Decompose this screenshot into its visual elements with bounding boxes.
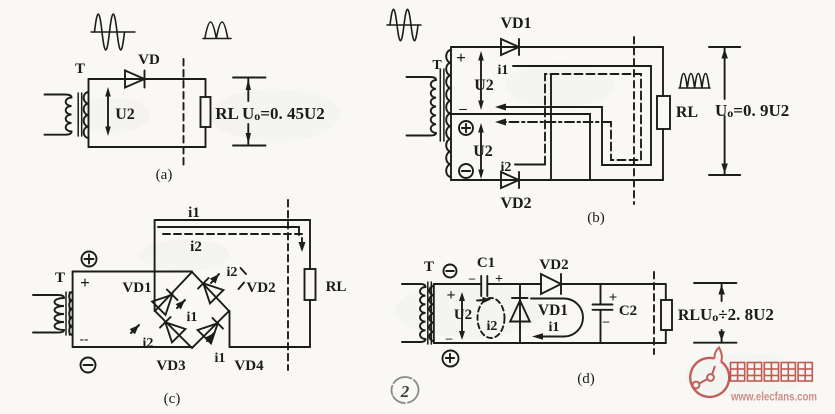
diode VD2 (b) bbox=[501, 172, 519, 188]
svg-text:(c): (c) bbox=[164, 391, 181, 407]
diode VD2 (d) bbox=[541, 274, 561, 294]
svg-text:VD2: VD2 bbox=[500, 195, 531, 212]
svg-text:--: -- bbox=[80, 331, 89, 346]
wire right rail (c) bbox=[309, 220, 311, 269]
svg-text:U2: U2 bbox=[115, 106, 135, 123]
svg-text:+: + bbox=[80, 273, 90, 292]
i1 inner rail (c) bbox=[158, 227, 299, 235]
svg-text:i2: i2 bbox=[143, 336, 154, 351]
node minus circle (d) bbox=[444, 265, 457, 278]
i1 solid loop (d) bbox=[531, 299, 583, 340]
dashed separator (a) bbox=[183, 59, 185, 166]
svg-text:U2: U2 bbox=[473, 143, 493, 160]
svg-text:VD2: VD2 bbox=[539, 257, 568, 273]
svg-text:C1: C1 bbox=[477, 255, 495, 271]
svg-text:U2: U2 bbox=[454, 307, 472, 323]
svg-text:+: + bbox=[609, 290, 618, 306]
svg-text:U2: U2 bbox=[474, 77, 494, 94]
input sine waveform (a) bbox=[91, 14, 135, 50]
svg-text:VD1: VD1 bbox=[500, 15, 531, 32]
wire top (d) bbox=[434, 283, 481, 285]
svg-text:i2: i2 bbox=[227, 265, 238, 280]
dashed separator (c) bbox=[287, 200, 289, 370]
svg-text:VD: VD bbox=[138, 52, 160, 68]
wire top (a) bbox=[89, 78, 206, 80]
wire vertical to i1 rail (c) bbox=[154, 220, 156, 311]
dimension Uo (d) bbox=[694, 283, 736, 343]
svg-text:i1: i1 bbox=[188, 205, 200, 221]
transformer T (b) bbox=[407, 47, 452, 180]
svg-text:RL: RL bbox=[326, 279, 347, 295]
i2 dashed current path (b) bbox=[545, 74, 641, 165]
circled 2 mark bbox=[389, 375, 420, 405]
svg-text:T: T bbox=[432, 58, 442, 73]
wire right corner drop (c) bbox=[229, 311, 231, 347]
resistor RL (a) bbox=[201, 97, 211, 127]
diode VD1 vertical (d) bbox=[510, 284, 530, 343]
wire right rail (d) bbox=[665, 284, 667, 300]
svg-text:i1: i1 bbox=[498, 63, 509, 78]
wire bottom (b) bbox=[451, 179, 663, 181]
wire vertical mid (b) bbox=[550, 74, 552, 180]
diode VD (a) bbox=[125, 71, 145, 88]
node plus circle (c) bbox=[82, 252, 97, 267]
svg-text:(d): (d) bbox=[577, 371, 595, 387]
node minus circle (c) bbox=[81, 358, 96, 373]
svg-text:i2: i2 bbox=[501, 160, 512, 175]
dashed separator (b) bbox=[633, 37, 635, 204]
svg-text:+: + bbox=[446, 287, 455, 304]
center tap wire (b) bbox=[451, 114, 590, 180]
wire left rail (c) bbox=[72, 272, 74, 348]
capacitor C1 (d) bbox=[481, 276, 487, 296]
wire top (b) bbox=[451, 46, 663, 48]
svg-text:VD2: VD2 bbox=[246, 280, 275, 296]
resistor RL (c) bbox=[305, 269, 316, 300]
wire bottom (d) bbox=[434, 342, 666, 344]
svg-text:+: + bbox=[456, 48, 466, 67]
resistor RL (d) bbox=[661, 300, 672, 330]
svg-text:Uo=0. 9U2: Uo=0. 9U2 bbox=[715, 101, 789, 120]
diode VD1 (b) bbox=[501, 39, 519, 55]
dashed separator (d) bbox=[653, 272, 655, 354]
node plus circle (b) bbox=[459, 121, 473, 135]
wire bottom (a) bbox=[89, 146, 206, 148]
node plus circle (d) bbox=[443, 351, 459, 367]
input sine waveform (b) bbox=[387, 9, 421, 41]
svg-text:i2: i2 bbox=[190, 239, 202, 255]
wire right rail (b) bbox=[662, 47, 664, 96]
wire top (c) bbox=[73, 271, 192, 273]
U2 arrow (d) bbox=[459, 292, 465, 340]
transformer T (d) bbox=[402, 282, 434, 344]
bridge diamond edges (c) bbox=[130, 268, 246, 348]
wire left rail (a) bbox=[88, 79, 90, 147]
node minus circle (b) bbox=[459, 164, 473, 178]
full-wave output waveform (b) bbox=[679, 74, 710, 88]
svg-text:RL: RL bbox=[678, 307, 700, 324]
svg-text:RL: RL bbox=[215, 104, 239, 123]
elecfans watermark bbox=[690, 348, 817, 404]
svg-text:–: – bbox=[468, 270, 476, 285]
transformer T (a) bbox=[45, 92, 89, 138]
svg-text:i1: i1 bbox=[215, 351, 226, 366]
svg-text:www.elecfans.com: www.elecfans.com bbox=[730, 392, 817, 404]
dimension Uo (b) bbox=[709, 47, 740, 175]
svg-text:(b): (b) bbox=[587, 210, 605, 226]
svg-text:C2: C2 bbox=[619, 303, 637, 319]
svg-text:VD3: VD3 bbox=[156, 358, 185, 374]
i2 leader (b) bbox=[515, 164, 545, 166]
capacitor C2 (d) bbox=[593, 284, 613, 343]
svg-text:T: T bbox=[424, 259, 434, 275]
svg-text:i2: i2 bbox=[487, 319, 498, 334]
U2 arrow upper (b) bbox=[478, 51, 484, 110]
wire bottom left (c) bbox=[73, 346, 192, 348]
U2 voltage arrow (a) bbox=[105, 87, 111, 136]
U2 arrow lower (b) bbox=[478, 123, 484, 179]
dimension Uo (a) bbox=[233, 78, 266, 146]
svg-text:VD1: VD1 bbox=[538, 302, 568, 319]
svg-text:i1: i1 bbox=[549, 320, 560, 335]
wire right rail (a) bbox=[205, 79, 207, 97]
svg-text:–: – bbox=[602, 313, 610, 328]
svg-text:(a): (a) bbox=[156, 167, 173, 183]
i2 dashed loop (d) bbox=[477, 297, 505, 338]
svg-text:i1: i1 bbox=[187, 310, 198, 325]
wire bottom right (c) bbox=[230, 346, 311, 348]
svg-text:T: T bbox=[75, 61, 85, 77]
svg-text:2: 2 bbox=[400, 382, 410, 401]
svg-text:VD1: VD1 bbox=[122, 280, 151, 296]
resistor RL (b) bbox=[657, 96, 670, 129]
i2 dashed rail (c) bbox=[163, 234, 302, 248]
svg-text:Uo÷2. 8U2: Uo÷2. 8U2 bbox=[700, 305, 774, 324]
svg-text:VD4: VD4 bbox=[234, 358, 264, 374]
svg-text:RL: RL bbox=[676, 104, 698, 121]
transformer T (c) bbox=[33, 292, 73, 335]
wire left rail (d) bbox=[433, 284, 435, 343]
half-wave output waveform (a) bbox=[203, 22, 231, 39]
i1 current path (b) bbox=[499, 66, 651, 165]
svg-text:T: T bbox=[55, 270, 65, 286]
i1 top rail outer (c) bbox=[155, 219, 310, 221]
